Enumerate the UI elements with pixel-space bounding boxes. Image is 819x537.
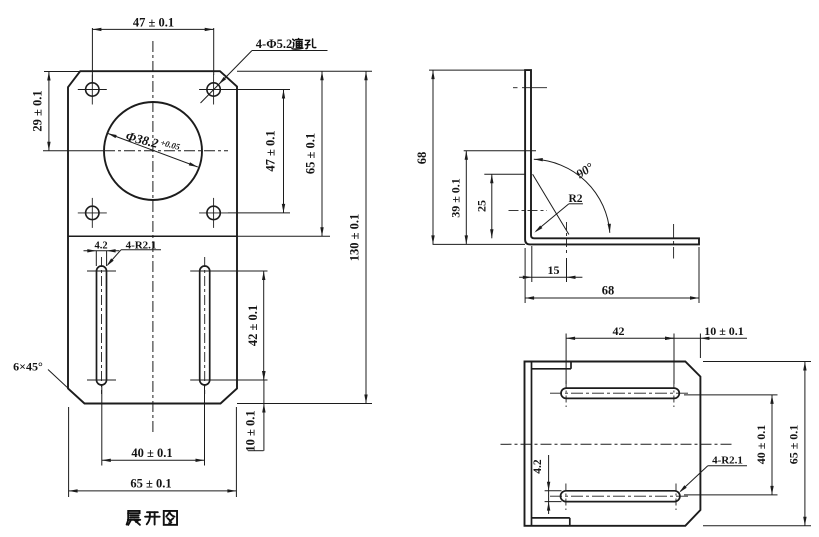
svg-text:4-Φ5.2: 4-Φ5.2 <box>256 37 292 51</box>
dim 47+-0.1 top <box>91 28 93 82</box>
dim 130+-0.1 total length <box>237 403 372 405</box>
slot far-end center mark <box>673 224 675 259</box>
caption unfolded-view (zhan kai tu) <box>127 511 141 525</box>
svg-text:R2: R2 <box>568 193 582 205</box>
svg-text:4-R2.1: 4-R2.1 <box>126 240 157 252</box>
mounting hole 4 (5.2 dia) <box>207 206 220 219</box>
svg-text:130 ± 0.1: 130 ± 0.1 <box>348 214 362 262</box>
svg-text:42: 42 <box>613 324 625 338</box>
upper hole center mark <box>513 87 518 89</box>
svg-text:4.2: 4.2 <box>532 459 544 474</box>
dim 4.2 slot width <box>95 251 97 266</box>
dim 10+-0.1 slot to edge <box>263 380 265 451</box>
slot near-end center mark <box>566 222 568 256</box>
diameter line <box>108 133 198 167</box>
svg-text:47 ± 0.1: 47 ± 0.1 <box>264 130 278 171</box>
lower hole center mark <box>509 209 548 211</box>
label 6x45 chamfer <box>48 370 85 404</box>
svg-text:4.2: 4.2 <box>94 240 107 251</box>
dim 40+-0.1 slot spacing <box>101 385 103 466</box>
dim 10+-0.1 (bottom view) <box>699 334 701 359</box>
side view L-profile outline <box>525 70 699 244</box>
dim 42 slot length (bottom view) <box>565 334 567 385</box>
bottom view outline <box>525 362 701 526</box>
upper slot (bottom view) <box>561 388 679 398</box>
mounting hole 1 (5.2 dia) <box>86 83 99 96</box>
svg-text:10 ± 0.1: 10 ± 0.1 <box>244 410 258 451</box>
label through-hole (tong kong) <box>292 39 303 50</box>
label 4-dia5.2 through-hole <box>252 50 328 52</box>
main centerline <box>501 443 732 445</box>
label R2 fillet <box>569 203 583 205</box>
dim 42+-0.1 slot length <box>210 270 268 272</box>
dim 39+-0.1 <box>464 150 536 152</box>
svg-text:65 ± 0.1: 65 ± 0.1 <box>304 133 318 174</box>
bend line <box>68 235 237 237</box>
dim 65+-0.1 (bottom view) <box>703 361 811 363</box>
bracket unfolded-view plate outline <box>68 71 237 403</box>
svg-text:39 ± 0.1: 39 ± 0.1 <box>449 178 463 218</box>
svg-text:65 ± 0.1: 65 ± 0.1 <box>787 425 801 465</box>
svg-text:68: 68 <box>415 152 429 165</box>
dim 65+-0.1 width <box>68 407 70 497</box>
top relief notch <box>532 368 572 370</box>
horizontal centerline of large hole <box>43 150 104 152</box>
dim 4.2 slot width (bottom view) <box>545 490 562 492</box>
bottom relief notch <box>532 517 570 519</box>
svg-text:15: 15 <box>548 263 560 277</box>
svg-text:4-R2.1: 4-R2.1 <box>712 454 743 466</box>
svg-text:40 ± 0.1: 40 ± 0.1 <box>754 425 768 465</box>
dim 65+-0.1 upper section <box>237 70 372 72</box>
svg-text:42 ± 0.1: 42 ± 0.1 <box>246 305 260 346</box>
svg-text:68: 68 <box>602 284 615 298</box>
dim 15 <box>531 246 533 282</box>
svg-text:29 ± 0.1: 29 ± 0.1 <box>31 90 45 131</box>
label 4-R2.1 slot radius <box>121 249 161 251</box>
right slot (unfolded view) <box>200 266 210 385</box>
dim 68 base length <box>524 248 526 303</box>
left slot (unfolded view) <box>97 266 107 385</box>
label 4-R2.1 (bottom view) <box>708 465 747 467</box>
mounting hole 2 (5.2 dia) <box>207 83 220 96</box>
svg-text:65 ± 0.1: 65 ± 0.1 <box>130 476 171 490</box>
svg-text:47 ± 0.1: 47 ± 0.1 <box>133 16 174 30</box>
dim 40+-0.1 slot spacing (bottom view) <box>684 394 778 396</box>
svg-text:25: 25 <box>475 200 489 212</box>
svg-text:40 ± 0.1: 40 ± 0.1 <box>131 446 172 460</box>
svg-text:10 ± 0.1: 10 ± 0.1 <box>704 324 744 338</box>
dim 47+-0.1 hole spacing <box>228 89 290 91</box>
dim 29+-0.1 left <box>44 71 83 73</box>
bent wall inner edge <box>531 362 533 526</box>
dim 68 height <box>429 69 525 71</box>
lower slot (bottom view) <box>561 491 680 502</box>
svg-text:6×45°: 6×45° <box>13 360 43 374</box>
90 degree angle arc <box>534 159 610 233</box>
vertical centerline <box>152 41 154 432</box>
large hole Phi38.2 <box>104 102 202 200</box>
dim 25 <box>484 173 525 175</box>
bend region line <box>533 174 569 234</box>
mounting hole 3 (5.2 dia) <box>86 206 99 219</box>
